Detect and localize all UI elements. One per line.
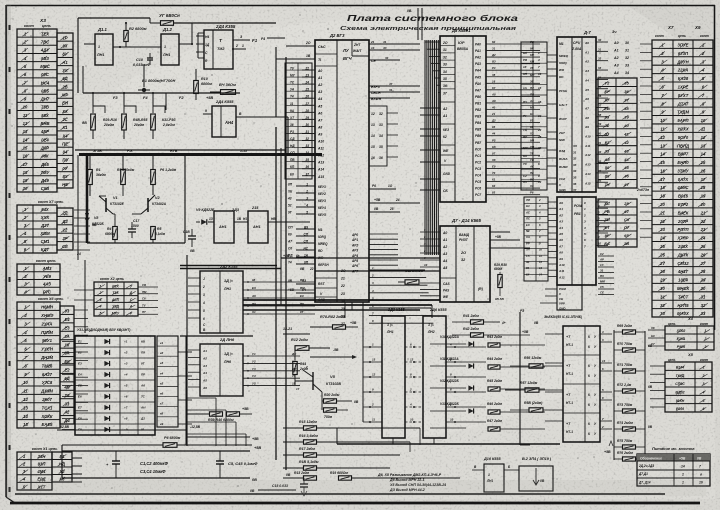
wire matrix to bus verticals (218, 389, 276, 391)
connector X5 table (665, 362, 712, 412)
resistor R11 (221, 90, 236, 95)
wire D8 port wires (486, 43, 540, 45)
wire osc bottom rail (83, 92, 240, 94)
resistor R22 (405, 280, 419, 284)
IC D2 body (315, 40, 369, 302)
wire X2 right stubs (138, 286, 158, 288)
resistor R18 (304, 466, 317, 470)
capacitor C18 (188, 235, 196, 237)
wire D2.6 outputs (243, 355, 300, 357)
wire D2 data bus stubs (369, 269, 425, 271)
diode V12 symbol (468, 385, 473, 390)
diode matrix D5 body (75, 336, 155, 435)
wire T to D2 clock (246, 48, 262, 50)
bus vertical pair (275, 127, 277, 460)
wire D2 clock inputs (286, 45, 315, 47)
wire D2.2 outputs (243, 281, 315, 283)
connector X6a table (17, 264, 60, 295)
wire X6 row stubs (74, 309, 88, 311)
resistor R41 (471, 320, 484, 324)
connector X1 aux cells (52, 452, 72, 482)
resistor R72 (623, 389, 636, 393)
connector X3 table (17, 29, 57, 192)
wire D6 bottom links (392, 438, 394, 444)
IC CPU left pin grid (521, 42, 547, 190)
resistor R70 (623, 348, 636, 352)
wire to X7X9 stubs (640, 43, 652, 45)
resistor ladder row 3 (488, 387, 500, 391)
inverter D1.1 (95, 34, 113, 65)
resistor V7 (161, 21, 174, 26)
wire D2 INT WAIT (369, 43, 420, 45)
wire bus upper thin (75, 149, 286, 151)
bus upper pair mid (180, 265, 277, 267)
IC NT-1 body (563, 326, 600, 442)
bus horizontal multi-line (243, 299, 440, 301)
IC D2 left pin grid (285, 63, 312, 179)
wire D3 vertical feed (362, 302, 364, 422)
resistor ladder row 1 (488, 343, 500, 347)
capacitor C5 symbol (219, 451, 221, 461)
wire NT-1 right stubs (600, 333, 612, 335)
bus top entry (417, 8, 419, 40)
wire rail drops (92, 93, 94, 104)
resistor R40 (227, 412, 240, 416)
bus vertical left (84, 260, 86, 333)
wire D2.6 vcc rail (180, 335, 253, 337)
capacitor rail bottom (62, 477, 250, 479)
wire staircase matrix right (186, 397, 216, 399)
IC D2.2 body (200, 271, 243, 333)
wire bundle to NT1 (460, 333, 545, 335)
resistor R15 (304, 426, 317, 430)
wire vert drop d2 to ladder (344, 302, 346, 318)
IC D2 left stub wires (302, 69, 315, 71)
bus vertical mid-left (186, 255, 188, 446)
IC ROM control box (557, 285, 582, 310)
resistor R3 (121, 170, 126, 185)
resistor R71 (623, 369, 636, 373)
resistor R75 (623, 445, 636, 449)
wire D2.2 inputs (188, 277, 200, 279)
wire RAM control stubs (420, 282, 440, 284)
wire plus5V to D8 (281, 257, 440, 259)
IC D16 body (484, 464, 504, 492)
wire X5 stubs (650, 365, 665, 367)
connector X4 table (665, 326, 714, 350)
wire CPU right stubs (596, 41, 608, 43)
wire 0V bottom rail (337, 443, 560, 445)
wire D4.4 output down (236, 116, 288, 118)
diode matrix diodes (104, 339, 109, 344)
wire D4.4 to bus (252, 116, 276, 118)
transistor V2 (147, 198, 149, 212)
resistor R57 (525, 388, 539, 392)
wire multivibrator bottom rail (87, 242, 185, 244)
wire F4 top (267, 37, 285, 39)
wire 0V to D8 (315, 270, 440, 272)
wire mid-right stubs (598, 255, 614, 257)
resistor group R31 R36 (151, 114, 156, 130)
wire plus5 long (186, 436, 250, 438)
resistor R21b (324, 408, 337, 412)
connector X7 X9 table (652, 40, 713, 317)
transistor V5 (312, 372, 314, 390)
thick bus horizontal (79, 153, 322, 156)
resistor R58 (529, 408, 543, 412)
resistor P6 (163, 443, 177, 448)
resistor R76 (623, 457, 636, 461)
wire D16 to B2 (516, 469, 519, 471)
wire F1 output (233, 39, 250, 41)
wire matrix right stubs (178, 351, 192, 353)
IC D8 body (440, 36, 486, 202)
wire ROM gnd vertical (519, 312, 521, 445)
wire X4 stubs (648, 329, 665, 331)
wire D2 key column (369, 106, 387, 166)
wire RAM right (490, 239, 520, 241)
bus data vertical bundle (424, 40, 426, 255)
inverter D4.4 block (212, 106, 236, 137)
resistor R4 (113, 227, 118, 240)
resistor R19 (339, 476, 352, 480)
wire matrix left stubs (62, 341, 75, 343)
wire 13-21 rail (283, 333, 310, 335)
wire NT-1 left stubs (545, 333, 563, 335)
diode V13 symbol (468, 408, 473, 413)
wire CPU left stubs (547, 54, 557, 56)
resistor R6 (151, 170, 156, 185)
buzzer B2 body (519, 466, 553, 491)
border frame (6, 5, 715, 7)
resistor chain rail (613, 330, 615, 460)
inverter D1.3 block (214, 211, 234, 243)
capacitor rail left (61, 445, 63, 478)
resistor R78-R82 (333, 325, 346, 329)
connector X3 aux cells (57, 33, 73, 188)
connector table mid-right lower (598, 199, 637, 247)
wire left column stubs to bus (74, 209, 90, 211)
IC ROM D41 body (557, 197, 596, 285)
wire lower mid links (362, 445, 364, 460)
resistor R1 (88, 170, 93, 185)
wire bottom bus verticals (275, 390, 277, 478)
resistor R39 (210, 412, 223, 416)
flip-flop D4.1 block (204, 30, 233, 69)
resistor ladder row 2 (488, 365, 500, 369)
wire plus5 rail (240, 444, 252, 446)
wire group drops (92, 130, 94, 139)
wire D4 left pins (196, 35, 204, 37)
connector X7L table (17, 205, 57, 253)
resistor R16 (304, 440, 317, 444)
matrix side table (157, 336, 178, 427)
resistor R13 (304, 476, 317, 480)
resistor R56 (529, 364, 543, 368)
IC ROM left pin grid (524, 197, 548, 281)
resistor ladder row 4 (488, 410, 500, 414)
wire X2 left link (74, 289, 94, 291)
connector X6 table (17, 302, 60, 428)
crystal B1 symbol (142, 88, 146, 92)
resistor R5 (151, 227, 156, 240)
connector X6 aux cells (60, 306, 74, 424)
IC D6 body (423, 316, 446, 438)
diode V9 (201, 219, 207, 225)
IC D3 body (382, 316, 405, 438)
resistor R42 (471, 333, 484, 337)
resistor R44 (293, 362, 297, 375)
IC D2 INT WAIT cell (351, 40, 353, 56)
wire D2 refresh stubs (369, 233, 398, 235)
wire D2 misc stubs (369, 188, 396, 190)
wire V5 links (321, 392, 323, 410)
IC D2.6 body (200, 344, 243, 396)
jumper staples (93, 106, 105, 113)
wire ROM left stubs (548, 201, 557, 203)
capacitor C10 symbol (149, 53, 151, 58)
wire R15 vertical collector (419, 428, 421, 445)
wire osc top rail (78, 17, 150, 19)
connector X7L aux cells (57, 208, 73, 250)
resistor group R29 R16 (91, 114, 96, 130)
power table (637, 454, 710, 486)
wire inverter feed (185, 221, 192, 223)
resistor ladder row 5 (488, 427, 500, 431)
wire collector links (113, 213, 115, 215)
capacitor C17 (128, 228, 136, 230)
connector X1 table (17, 452, 52, 490)
diode V8 (85, 213, 89, 219)
wire D2.6 inputs (188, 349, 200, 351)
border tick marks (8, 25, 10, 30)
inverter D1.5 block (248, 211, 268, 243)
resistor group R48 R55 (122, 114, 127, 130)
wire R12 to arrow (329, 348, 331, 357)
capacitor rail top (62, 450, 250, 452)
inverter D1.2 (161, 34, 179, 65)
wire RAM address stubs (420, 231, 440, 233)
diode V11 symbol (468, 363, 473, 368)
wire minus rail (57, 429, 186, 431)
IC CPU body (557, 37, 596, 192)
multivibrator right edge (184, 156, 186, 243)
resistor R29 (498, 275, 502, 288)
resistor R17 (304, 453, 317, 457)
resistor R69 (623, 330, 636, 334)
wire ROM right stubs (596, 201, 608, 203)
wire D4 feedback (198, 57, 204, 59)
connector X2 table (94, 282, 138, 316)
wire D3 D6 dashed rows (363, 346, 382, 348)
thick bus vertical (86, 154, 89, 243)
wire D8 left control stubs (420, 107, 440, 109)
resistor R73 (623, 409, 636, 413)
wire D2 RST/V/GND (296, 283, 315, 285)
IC RAM body (440, 226, 490, 302)
resistor R10 (194, 81, 199, 94)
resistor R74 (623, 427, 636, 431)
wire rom gnd branches (505, 389, 520, 391)
resistor R2 (124, 31, 128, 42)
resistor R12 (295, 346, 309, 351)
wires from X1 to cap box (72, 457, 82, 459)
edge smudges (6, 5, 11, 499)
diode V10 symbol (468, 341, 473, 346)
wire buzzer feed (460, 470, 472, 478)
resistor R20 (324, 399, 337, 403)
transistor V1 (105, 198, 107, 212)
wire D8 data stubs (425, 41, 440, 43)
